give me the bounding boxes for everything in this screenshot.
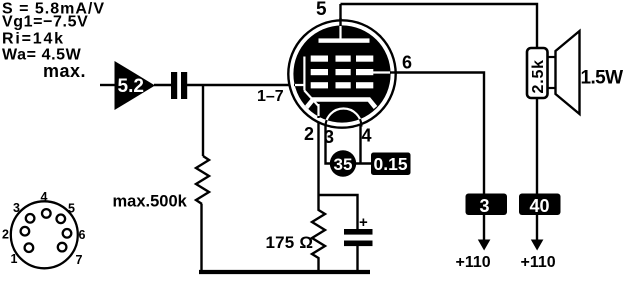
svg-text:6: 6 — [402, 53, 412, 73]
svg-text:40: 40 — [530, 196, 550, 216]
svg-text:3: 3 — [324, 127, 334, 147]
svg-text:4: 4 — [41, 190, 48, 204]
svg-text:175 Ω: 175 Ω — [266, 233, 314, 252]
svg-text:1.5W: 1.5W — [581, 68, 624, 89]
svg-text:Ri=14k: Ri=14k — [2, 31, 65, 48]
svg-text:max.: max. — [43, 61, 86, 81]
svg-text:35: 35 — [334, 155, 353, 174]
svg-text:+110: +110 — [456, 254, 491, 271]
svg-text:3: 3 — [480, 196, 490, 216]
svg-text:6: 6 — [79, 228, 86, 242]
svg-text:2: 2 — [2, 228, 9, 242]
svg-text:1–7: 1–7 — [257, 88, 284, 105]
svg-text:+110: +110 — [521, 254, 556, 271]
svg-text:5: 5 — [68, 202, 75, 216]
svg-text:2.5k: 2.5k — [530, 59, 547, 93]
svg-text:5.2: 5.2 — [118, 76, 144, 97]
svg-text:Vg1=−7.5V: Vg1=−7.5V — [2, 14, 88, 31]
svg-text:+: + — [359, 214, 368, 231]
svg-text:3: 3 — [13, 201, 20, 215]
svg-text:7: 7 — [76, 253, 83, 267]
svg-text:max.500k: max.500k — [113, 193, 188, 211]
svg-text:4: 4 — [362, 126, 372, 146]
svg-text:5: 5 — [316, 0, 327, 20]
svg-text:0.15: 0.15 — [374, 154, 408, 174]
svg-text:1: 1 — [11, 252, 18, 266]
svg-text:2: 2 — [304, 124, 314, 144]
